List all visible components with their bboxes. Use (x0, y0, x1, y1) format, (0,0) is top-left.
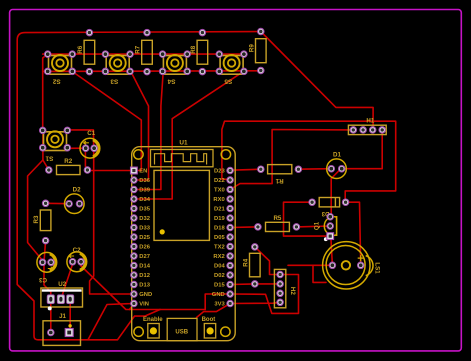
svg-text:D19: D19 (214, 216, 225, 222)
svg-text:USB: USB (175, 329, 188, 335)
svg-text:RX2: RX2 (213, 254, 224, 260)
svg-text:D05: D05 (214, 235, 225, 241)
svg-text:GND: GND (139, 292, 152, 298)
svg-text:TX2: TX2 (214, 245, 225, 251)
svg-text:D13: D13 (139, 283, 150, 289)
svg-text:TX0: TX0 (214, 188, 225, 194)
svg-text:D12: D12 (139, 273, 150, 279)
svg-text:D2: D2 (73, 187, 81, 194)
svg-text:D32: D32 (139, 216, 150, 222)
svg-text:R7: R7 (135, 45, 142, 53)
svg-text:R9: R9 (248, 44, 255, 52)
svg-text:R6: R6 (77, 45, 84, 53)
svg-text:D1: D1 (333, 152, 341, 159)
svg-text:R3: R3 (33, 215, 40, 223)
svg-text:D14: D14 (139, 264, 150, 270)
svg-text:D35: D35 (139, 207, 150, 213)
svg-text:D25: D25 (139, 235, 150, 241)
svg-text:U1: U1 (179, 139, 188, 146)
svg-text:D33: D33 (139, 226, 150, 232)
svg-text:U2: U2 (58, 281, 66, 288)
svg-text:D23: D23 (214, 169, 225, 175)
svg-text:Q1: Q1 (314, 221, 321, 230)
svg-text:D15: D15 (214, 283, 225, 289)
svg-text:D39: D39 (139, 188, 150, 194)
svg-text:D21: D21 (214, 207, 225, 213)
svg-text:R5: R5 (273, 215, 281, 222)
svg-text:D18: D18 (214, 226, 225, 232)
svg-text:D26: D26 (139, 245, 150, 251)
svg-text:S3: S3 (110, 78, 118, 85)
svg-text:D34: D34 (139, 197, 150, 203)
svg-text:S5: S5 (224, 78, 232, 85)
svg-text:D04: D04 (214, 264, 225, 270)
svg-text:3V3: 3V3 (214, 302, 225, 308)
svg-text:D22: D22 (214, 178, 225, 184)
svg-text:H2: H2 (289, 287, 296, 295)
svg-text:D27: D27 (139, 254, 150, 260)
svg-text:LS1: LS1 (374, 262, 381, 274)
svg-text:C1: C1 (87, 130, 95, 137)
svg-text:H1: H1 (366, 118, 374, 125)
svg-text:RX0: RX0 (213, 197, 224, 203)
svg-text:Boot: Boot (202, 317, 216, 323)
svg-text:R8: R8 (190, 45, 197, 53)
svg-text:R2: R2 (64, 158, 72, 165)
svg-text:S2: S2 (52, 78, 60, 85)
svg-text:Enable: Enable (143, 317, 163, 323)
svg-text:R1: R1 (275, 177, 283, 184)
svg-text:R4: R4 (242, 258, 249, 266)
svg-text:GND: GND (212, 292, 225, 298)
svg-text:S4: S4 (167, 78, 175, 85)
svg-text:J1: J1 (59, 313, 66, 320)
svg-text:D02: D02 (214, 273, 225, 279)
svg-text:C3: C3 (38, 276, 46, 283)
svg-text:C2: C2 (73, 247, 81, 254)
svg-text:S1: S1 (45, 154, 53, 161)
svg-text:VIN: VIN (139, 302, 149, 308)
svg-text:D36: D36 (139, 178, 150, 184)
svg-text:EN: EN (139, 169, 147, 175)
